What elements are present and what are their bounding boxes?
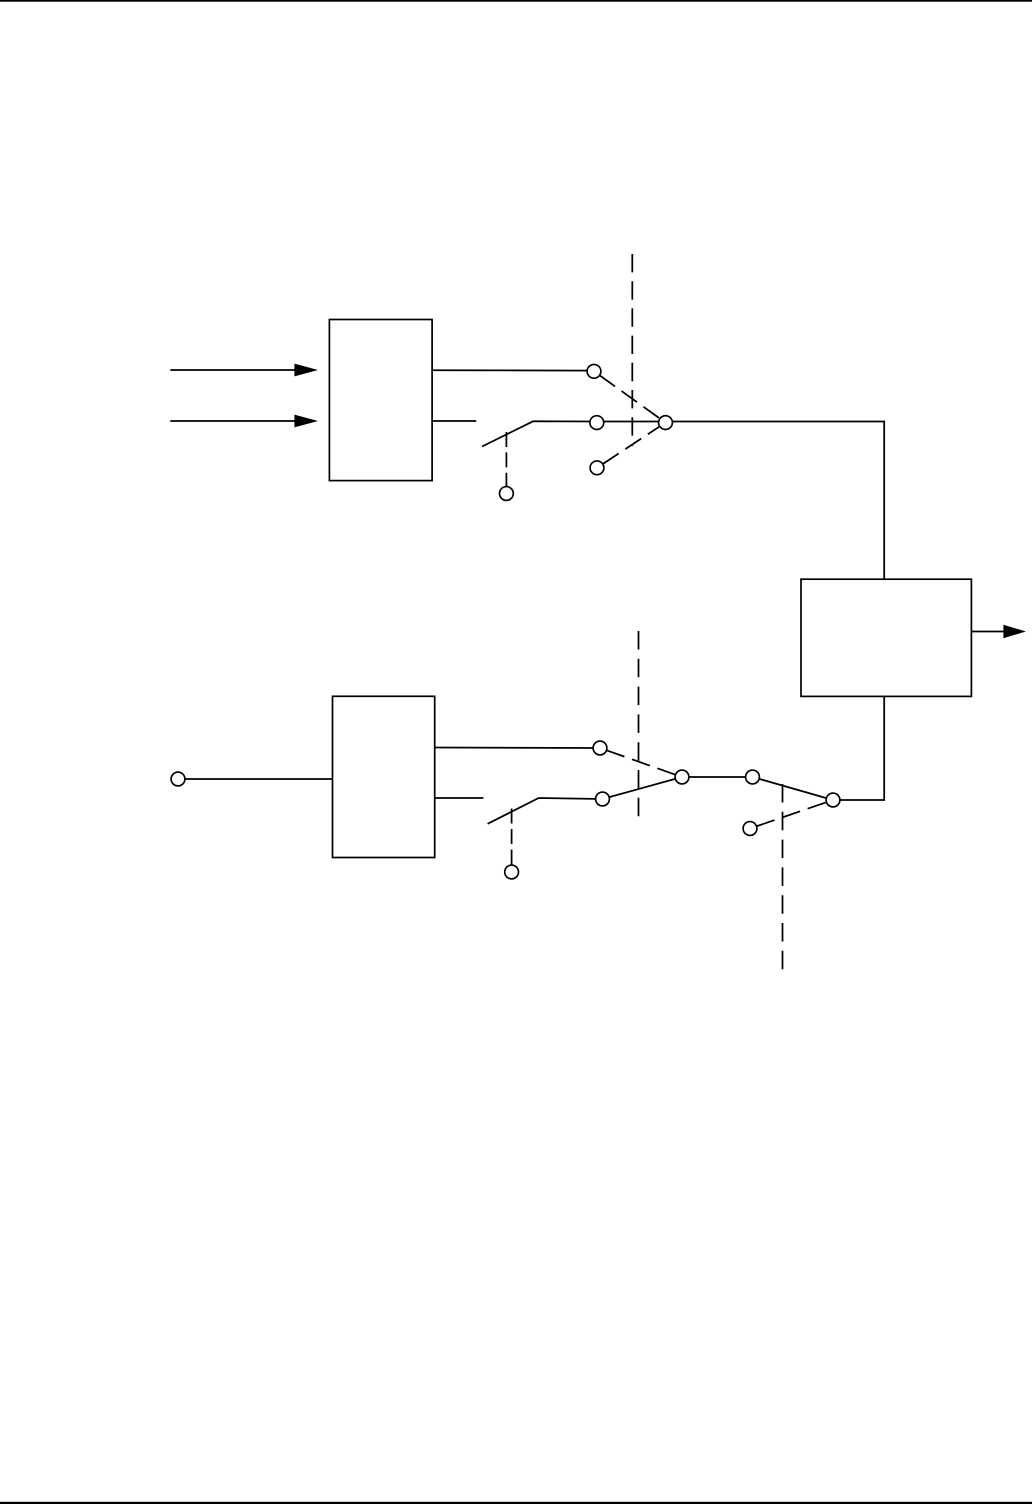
node SW1 control <box>500 487 514 501</box>
wire: solid throw S3A to common C3 <box>753 777 834 800</box>
wire: input arrow 1 shaft <box>170 369 296 371</box>
wire: node S1B to common node C1 <box>596 421 665 423</box>
wire: dashed select line V3 <box>782 784 784 978</box>
wire: dashed select line V2 <box>638 631 640 820</box>
wire: switch SW1 lever <box>482 421 596 446</box>
arrowhead: output arrow <box>1003 625 1026 638</box>
wire: input node to box3 <box>178 778 333 780</box>
node S3B <box>743 822 757 836</box>
node S2B <box>596 792 610 806</box>
block: box1 (upper encoder) <box>329 320 432 481</box>
arrowhead: input arrow 2 <box>294 415 318 428</box>
block: box2 (output combiner) <box>801 579 971 696</box>
wire: dashed select line V1 <box>631 254 633 446</box>
wire: dashed throw S3B to common C3 <box>750 800 833 829</box>
node S3A <box>746 770 760 784</box>
wire: dashed control drop of SW2 <box>511 809 513 866</box>
node S2A <box>593 741 607 755</box>
wire: dashed throw C1 to S1A <box>594 371 666 422</box>
wire: box2 bottom to common C3 <box>833 696 884 800</box>
node C3 (common) <box>826 793 840 807</box>
node SW2 control <box>505 865 519 879</box>
wire: common C1 to box2 top <box>666 422 885 580</box>
wire: box3 output 2 stub <box>435 797 484 799</box>
top page rule <box>0 0 1032 2</box>
node S1A <box>587 364 601 378</box>
wire: dashed control drop of SW1 <box>505 432 507 486</box>
block: box3 (lower encoder) <box>333 696 435 857</box>
wire: box1 output 2 stub <box>432 420 476 422</box>
bottom page rule <box>0 1502 1032 1504</box>
wire: box2 output shaft <box>971 631 1004 633</box>
node C1 (common) <box>659 416 673 430</box>
wire: box1 output 1 to node S1A <box>432 369 594 371</box>
wire: box3 output 1 to node S2A <box>435 747 600 750</box>
node C2 (common) <box>675 770 689 784</box>
node S1C <box>590 461 604 475</box>
arrowhead: input arrow 1 <box>294 364 318 377</box>
wire: input arrow 2 shaft <box>170 420 296 422</box>
wire: dashed throw C1 to S1C <box>597 423 666 468</box>
wire: common C2 to node S3A <box>682 776 753 778</box>
wire: solid throw C2 to S2B <box>603 777 683 799</box>
node: lower input terminal <box>171 772 185 786</box>
node S1B <box>590 416 604 430</box>
wire: dashed throw C2 to S2A <box>600 748 682 777</box>
wire: switch SW2 lever <box>488 798 603 824</box>
